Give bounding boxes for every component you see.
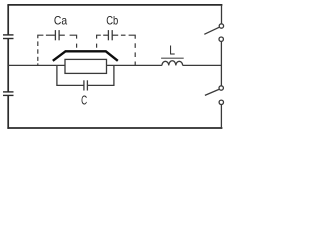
switch S1 blade bbox=[204, 27, 219, 34]
wire left border lower segment bbox=[7, 96, 9, 129]
wire left border middle segment bbox=[7, 39, 9, 92]
wire middle horizontal right segment bbox=[183, 64, 222, 66]
solid lead out of Cb bbox=[112, 34, 118, 36]
capacitor C plates bbox=[84, 80, 88, 90]
inductor L winding bbox=[162, 61, 183, 66]
solid lead into Ca bbox=[46, 34, 56, 36]
svg-text:Cb: Cb bbox=[106, 14, 118, 28]
dashed lead right of Ca down to case bbox=[70, 35, 77, 48]
metal case lid (bold trapezoid) bbox=[53, 51, 118, 61]
capacitor C1 (upper left, unlabeled) bbox=[3, 35, 14, 39]
wire middle horizontal left segment bbox=[8, 64, 162, 66]
capacitor C2 (lower left, unlabeled) bbox=[3, 92, 14, 96]
dashed lead from case up to Cb bbox=[97, 35, 101, 48]
svg-text:Ca: Ca bbox=[54, 14, 67, 28]
wire left border upper segment bbox=[7, 5, 9, 35]
inductor L core bar bbox=[161, 57, 184, 59]
switch S1 top contact bbox=[219, 24, 223, 28]
wire top border bbox=[7, 4, 222, 6]
dashed lead right of Cb down to wire bbox=[121, 35, 135, 65]
dashed lead left of Ca bbox=[38, 35, 44, 65]
resonator box (quartz plate) bbox=[65, 59, 107, 73]
solid lead out of Ca bbox=[59, 34, 65, 36]
wire bottom border bbox=[7, 127, 222, 129]
svg-text:C: C bbox=[81, 93, 87, 107]
capacitor C loop below resonator bbox=[57, 65, 114, 85]
capacitor Cb plates bbox=[108, 30, 112, 40]
capacitor Ca plates bbox=[55, 30, 59, 40]
solid lead into Cb bbox=[103, 34, 108, 36]
switch S2 bottom contact bbox=[219, 100, 223, 104]
wire right border top segment bbox=[221, 5, 223, 24]
wire right border mid segment bbox=[220, 42, 222, 86]
switch S1 bottom contact bbox=[219, 37, 223, 41]
switch S2 blade bbox=[205, 89, 219, 95]
wire right border bottom segment bbox=[220, 105, 222, 129]
svg-text:L: L bbox=[169, 44, 175, 58]
switch S2 top contact bbox=[219, 86, 223, 90]
